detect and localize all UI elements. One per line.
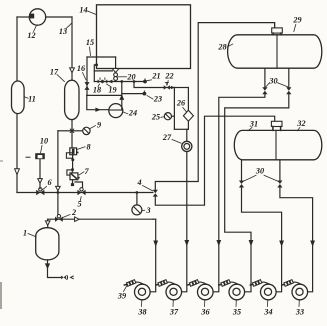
gauge 3 stem (136, 193, 138, 205)
svg-text:18: 18 (93, 86, 101, 95)
sensor 21 (143, 80, 147, 84)
wire tank top feed (274, 23, 276, 28)
unloader left wire with valve 16 (86, 57, 88, 95)
valve 30 (lower left) (239, 181, 244, 185)
blower burner 38 (spiral) (135, 284, 151, 300)
svg-text:30: 30 (255, 167, 264, 176)
main air header (wire) (17, 192, 153, 194)
filter 27 (double circle) (182, 141, 192, 151)
valve 4 (vertical bowtie) (153, 190, 158, 193)
svg-text:24: 24 (128, 109, 137, 118)
flow arrow (open, down) above valve 6 (38, 179, 43, 184)
unloader top wire (87, 56, 116, 58)
shut-off valve 2 (55, 217, 59, 222)
blower burner 36 (spiral) (198, 284, 214, 300)
air receiver 31/32 (lower tank) (234, 130, 322, 159)
moisture separator 11 (12, 81, 25, 114)
wire 8 to 7 (72, 155, 74, 170)
svg-text:10: 10 (40, 137, 48, 146)
flow arrow burner 33 line (310, 241, 315, 247)
shut-off valve 6 (36, 190, 40, 196)
receiver 28/29 manhole fitting (272, 28, 283, 33)
wire to burner 33 (280, 188, 313, 292)
receiver 31/32 manhole fitting (271, 121, 282, 126)
wire valve4 down branch (155, 116, 274, 205)
junction dot gauge3 (136, 191, 139, 194)
blower burner 34 (spiral) (261, 284, 277, 300)
wire loop to filter 27 (186, 129, 188, 141)
pressure gauge 3 (132, 205, 142, 215)
wire to burner 38 (153, 218, 156, 220)
compressor 24 (circle) (109, 104, 123, 118)
valve 30 (lower right) (277, 181, 282, 185)
blower burner 33 (spiral) (292, 284, 308, 300)
flow arrow burner 37 line (184, 240, 189, 246)
svg-text:3: 3 (145, 206, 150, 215)
discharge wire (121, 82, 123, 111)
wire 12-right to line 13 (46, 16, 72, 18)
pilot device 10 (35, 153, 45, 159)
valve 18 (98, 80, 100, 84)
svg-text:33: 33 (295, 308, 304, 317)
flow arrow burner 38 line (153, 241, 158, 247)
svg-text:27: 27 (162, 133, 172, 142)
valve 22 (164, 85, 167, 90)
oil-water separator 17 (65, 80, 79, 119)
svg-text:36: 36 (200, 308, 210, 317)
flow arrow (solid, right) after 22 (171, 86, 175, 90)
wire down to separator 11 (16, 17, 18, 81)
flow arrow (open, right) after valve 2 (75, 217, 80, 222)
wire lower receiver right outlet (279, 160, 281, 181)
machine housing 14 (rectangle) (97, 5, 191, 69)
svg-text:32: 32 (296, 119, 305, 128)
svg-text:22: 22 (164, 72, 173, 81)
flow arrow burner 35 line (249, 240, 254, 246)
wire receiver left outlet (264, 68, 266, 87)
wire valve2 line (48, 218, 153, 220)
edge smudge (0, 282, 2, 309)
air receiver 28/29 (upper tank) (228, 35, 322, 68)
pilot cross wire (94, 70, 112, 72)
svg-text:29: 29 (292, 16, 301, 25)
svg-text:5: 5 (77, 200, 81, 209)
svg-text:21: 21 (151, 72, 160, 81)
flow arrow (solid, up) discharge (119, 94, 124, 100)
svg-text:9: 9 (97, 121, 101, 130)
junction cross under tank 17 (71, 129, 74, 132)
junction dot bypass/discharge (120, 80, 123, 83)
wire unloader right drop (115, 57, 117, 68)
compressor unit symbol 12 (circle) (29, 9, 45, 25)
wire to burner 36 (208, 94, 265, 292)
svg-text:19: 19 (108, 86, 116, 95)
suction wire (87, 95, 109, 109)
wire 12-left (17, 16, 29, 18)
flow arrow burner 34 line (279, 241, 284, 247)
svg-text:37: 37 (169, 308, 179, 317)
tank 1 drain wire (48, 260, 61, 278)
wire junction left (58, 130, 72, 132)
flow arrow (solid, left) on bypass (108, 80, 112, 84)
svg-text:30: 30 (268, 77, 277, 86)
svg-text:11: 11 (28, 95, 36, 104)
valve 19 (103, 80, 105, 84)
wire lower receiver left outlet (241, 160, 243, 181)
svg-text:15: 15 (86, 38, 94, 47)
junction dot main/drop (57, 191, 60, 194)
svg-text:38: 38 (137, 308, 146, 317)
svg-text:23: 23 (153, 95, 162, 104)
drain arrow (solid, down) (45, 263, 50, 269)
valve 16 (vertical bowtie) (84, 82, 89, 86)
drain valve + outlet symbol (61, 276, 63, 280)
svg-text:28: 28 (217, 43, 226, 52)
svg-text:4: 4 (136, 178, 141, 187)
wire tank17 to junction (71, 120, 73, 149)
svg-text:12: 12 (27, 31, 35, 40)
junction dot on housing edge (95, 63, 98, 66)
flow arrow (open, down) on line 11 (15, 169, 20, 175)
junction dot above 7 (71, 168, 74, 171)
blow-off cock 23 (143, 92, 147, 96)
svg-text:16: 16 (77, 64, 86, 73)
wire 11 down to main header (16, 114, 18, 193)
wire valve4 up branch (155, 23, 274, 190)
svg-text:14: 14 (79, 6, 87, 15)
wire 10 to valve 6 (39, 159, 41, 188)
svg-text:1: 1 (23, 229, 27, 238)
pressure regulator 7 (67, 170, 72, 175)
junction dot bypass/branch22 (133, 80, 136, 83)
svg-text:31: 31 (249, 120, 258, 129)
wire 13 down to separator 17 (71, 17, 73, 80)
stub + solid square below 7 (72, 180, 74, 184)
check valve 26 (diamond) (183, 110, 193, 121)
junction dot below 8 (71, 158, 74, 161)
loop wire (left/top/right/bottom) (174, 87, 188, 89)
svg-text:8: 8 (86, 143, 90, 152)
pressure regulator 8 (70, 148, 77, 155)
wire receiver right outlet (288, 68, 290, 87)
wire 7 outlet to valve 5 (75, 182, 83, 189)
wire to burner 34 (242, 188, 282, 292)
bypass return wire (87, 94, 122, 96)
valve 30 (upper left) (262, 87, 267, 91)
blow-off branch wire (122, 93, 143, 95)
svg-text:25: 25 (151, 113, 160, 122)
pressure gauge 25 (164, 113, 171, 120)
wire junction to gauge 9 (72, 130, 83, 132)
wire filter 27 to burner 37 (177, 152, 187, 292)
bypass wire y=81.5 (94, 81, 143, 83)
shut-off valve 5 (77, 190, 81, 196)
svg-text:26: 26 (176, 99, 186, 108)
flow arrow (open, down) above tank 1 (45, 221, 50, 226)
flow arrow (open, down) on drop at valve 2 branch (56, 186, 61, 190)
valve 30 (upper right) (286, 87, 291, 91)
flow arrow (solid, right) suction (95, 108, 100, 112)
blower burner 35 (spiral) (229, 284, 245, 300)
wire into tank 1 (47, 219, 49, 228)
relief valve 20 (triangle+discs) (112, 69, 119, 73)
pilot wire from housing (94, 65, 96, 82)
wire drop x=57.9 to valve 2 (57, 131, 59, 217)
svg-text:2: 2 (71, 208, 76, 217)
pressure gauge 9 (83, 127, 90, 134)
tick left of 10 (26, 156, 30, 158)
oil tank 1 (36, 228, 59, 260)
svg-text:34: 34 (263, 308, 272, 317)
blower burner 37 (spiral) (166, 284, 182, 300)
svg-text:35: 35 (232, 308, 241, 317)
flow arrow (open, down) above tank 17 (70, 68, 75, 73)
wire to burner 35 (225, 94, 289, 292)
flow arrow burner 36 line (216, 240, 221, 246)
svg-text:39: 39 (117, 292, 126, 301)
wire branch to valve 22 (134, 82, 174, 88)
